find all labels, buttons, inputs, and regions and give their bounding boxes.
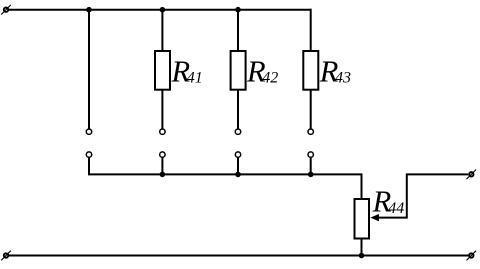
wire stub row2 branch3 [237,157,239,174]
terminal X3 right (wiper) [467,170,477,180]
wire stub row2 branch2 [161,157,163,174]
node junction dot bus/branch3 [235,172,241,178]
terminal X2 bottom-left [1,251,11,261]
node junction dot bus/branch2 [160,172,166,178]
wire wiper of R44 to terminal [378,174,469,217]
svg-text:43: 43 [335,70,351,87]
contact: open circle row1 branch1 [86,129,91,134]
wire R42 bottom lead [237,90,239,129]
node junction dot R41/top rail [160,7,166,13]
wire branch 1 vertical [88,10,90,129]
node junction dot R44/bottom rail [359,253,365,259]
contact: open circle row2 branch1 [86,152,91,157]
resistor R41 [155,51,170,90]
wire R43 top lead (corner of top rail) [310,9,312,51]
contact: open circle row1 branch3 [235,129,240,134]
node junction dot bus/branch4 [308,172,314,178]
resistor R42 [231,51,246,90]
wiper arrow head of R44 [370,214,379,221]
svg-text:44: 44 [388,200,404,217]
terminal X1 top-left [1,5,11,15]
resistor R43 [303,51,318,90]
wire R41 bottom lead [161,90,163,129]
wire R41 top lead [161,10,163,51]
wire bottom rail [9,255,469,257]
wire bus (lower collector rail) [89,157,362,199]
node junction dot branch1/top rail [86,7,92,13]
wire R43 bottom lead [310,90,312,129]
contact: open circle row2 branch3 [235,152,240,157]
contact: open circle row2 branch2 [160,152,165,157]
terminal X4 bottom-right [467,251,477,261]
wire stub row2 branch4 [310,157,312,174]
svg-text:42: 42 [262,70,278,87]
wire R42 top lead [237,10,239,51]
wire top rail [9,9,311,11]
resistor R44 (rheostat body) [355,199,370,239]
contact: open circle row2 branch4 [308,152,313,157]
wire R44 bottom lead [361,239,363,256]
node junction dot R42/top rail [235,7,241,13]
contact: open circle row1 branch4 [308,129,313,134]
svg-text:41: 41 [187,70,203,87]
contact: open circle row1 branch2 [160,129,165,134]
